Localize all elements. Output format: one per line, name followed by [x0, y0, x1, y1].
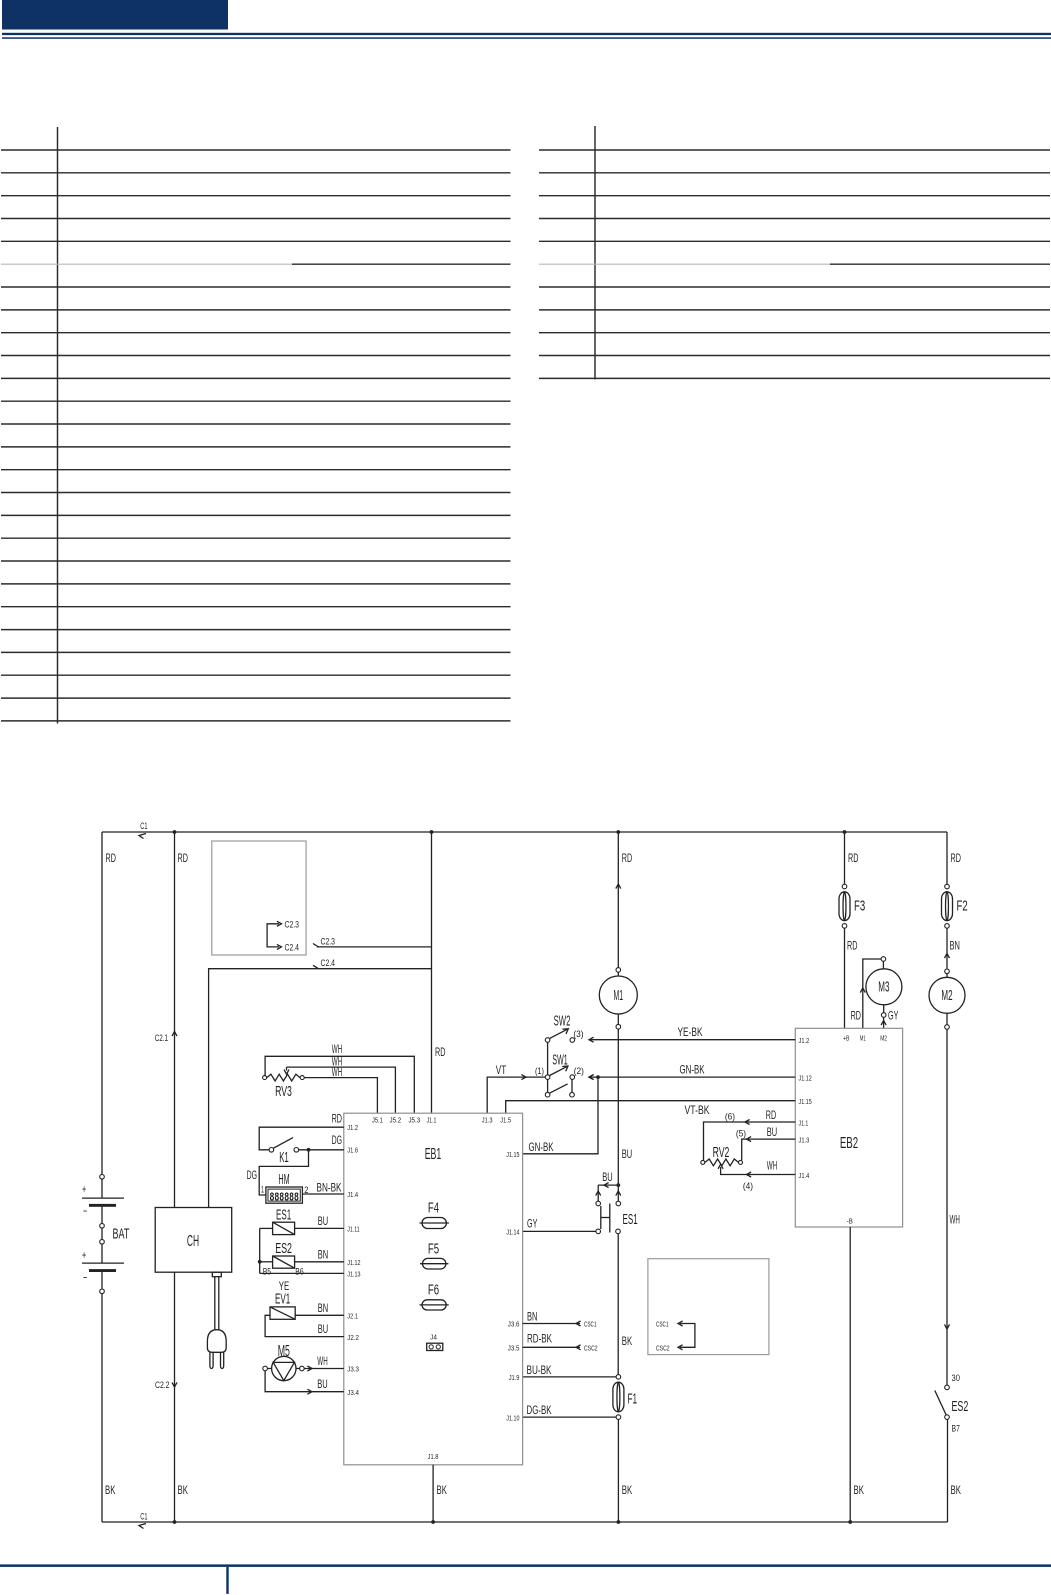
svg-text:ES2: ES2: [275, 1241, 292, 1257]
left table row line 21: [1, 606, 511, 608]
svg-text:BU: BU: [318, 1214, 328, 1228]
svg-text:M1: M1: [614, 988, 624, 1004]
svg-text:RD: RD: [178, 851, 189, 865]
wire: BN-BK HM to EB1 J1.4: [302, 1193, 343, 1195]
left table row line 18: [1, 537, 511, 539]
svg-text:J1.8: J1.8: [428, 1452, 439, 1461]
wire: RD riser to EB1 J1.1: [430, 830, 434, 834]
left table row line 10: [1, 355, 511, 357]
wire: F1 to bottom rail BK: [617, 1419, 619, 1522]
svg-text:CSC1: CSC1: [584, 1320, 597, 1329]
svg-text:J1.9: J1.9: [509, 1373, 520, 1382]
wire: VT EB1 J1.3 to SW1 (1): [487, 1077, 545, 1113]
svg-text:J1.1: J1.1: [427, 1116, 437, 1125]
svg-text:M1: M1: [860, 1034, 866, 1043]
wire: EB2 M1 pin to motor M3: [863, 959, 881, 1028]
svg-text:GY: GY: [527, 1217, 537, 1231]
svg-text:WH: WH: [767, 1159, 777, 1173]
wire: DG K1 junction to HM: [259, 1150, 308, 1195]
left table column divider: [57, 127, 59, 724]
node C2.3 inside: [267, 924, 279, 947]
svg-text:EB1: EB1: [425, 1146, 442, 1163]
right table row line 11: [539, 377, 1050, 379]
svg-text:CSC1: CSC1: [656, 1320, 669, 1329]
svg-text:BK: BK: [105, 1483, 115, 1497]
right table row line 7: [539, 286, 1050, 288]
svg-text:F6: F6: [428, 1283, 439, 1299]
right table row line 9: [539, 332, 1050, 334]
svg-text:BU: BU: [317, 1377, 327, 1391]
SW1 lower contacts: [547, 1079, 549, 1092]
svg-text:C2.2: C2.2: [155, 1380, 170, 1390]
svg-text:BK: BK: [951, 1483, 961, 1497]
svg-text:J3.6: J3.6: [508, 1320, 520, 1329]
svg-text:J5.1: J5.1: [372, 1116, 383, 1125]
svg-text:J1.2: J1.2: [799, 1036, 810, 1045]
svg-text:(4): (4): [743, 1181, 753, 1191]
potentiometer RV2: [701, 1160, 705, 1164]
svg-text:GN-BK: GN-BK: [680, 1063, 705, 1077]
right table row line 1: [539, 149, 1050, 151]
svg-text:J5.2: J5.2: [390, 1116, 402, 1125]
svg-text:BN-BK: BN-BK: [317, 1181, 342, 1195]
controller EB2: [795, 1028, 902, 1227]
left table row line 24: [1, 674, 511, 676]
relay contact K1: [269, 1148, 274, 1153]
svg-text:ES2: ES2: [952, 1399, 969, 1415]
svg-text:J1.1: J1.1: [799, 1119, 809, 1128]
left table row line 5: [1, 240, 511, 242]
wire: battery to bottom rail BK: [101, 1294, 103, 1522]
left table row line 7: [1, 286, 511, 288]
wire: YE to EB1 J1.13: [260, 1272, 344, 1274]
svg-text:WH: WH: [950, 1213, 960, 1227]
left table row line 25: [1, 697, 511, 699]
svg-text:C1: C1: [140, 821, 147, 831]
connector box CSC (gray): [648, 1259, 769, 1355]
svg-text:YE-BK: YE-BK: [678, 1025, 703, 1039]
svg-text:ES1: ES1: [276, 1207, 291, 1223]
wire: GN-BK EB1 J1.15 up to SW1 junction: [523, 1077, 598, 1154]
left table row line 4: [1, 218, 511, 220]
wire: YE-BK EB2 J1.2 to SW2: [590, 1039, 795, 1041]
left table row line 14: [1, 446, 511, 448]
svg-text:M2: M2: [941, 988, 952, 1004]
wire: WH RV3 left to EB1 J5.3: [265, 1056, 414, 1113]
header double rule upper: [2, 33, 1051, 35]
svg-text:30: 30: [952, 1373, 960, 1383]
wire: rail corner to fuse F2: [946, 832, 948, 884]
svg-text:1: 1: [261, 1185, 264, 1195]
svg-text:RV2: RV2: [713, 1145, 730, 1161]
connector box C2 (gray): [212, 841, 306, 955]
left table row line 16: [1, 492, 511, 494]
motor M3: [881, 957, 886, 962]
left table row line 3: [1, 195, 511, 197]
wire: EB1 J1.8 to bottom rail BK: [432, 1465, 434, 1522]
svg-text:J1.5: J1.5: [500, 1116, 511, 1125]
svg-text:M2: M2: [880, 1034, 887, 1043]
motor M1: [616, 968, 621, 973]
svg-text:888888: 888888: [270, 1190, 299, 1204]
svg-text:HM: HM: [278, 1172, 289, 1188]
svg-text:SW2: SW2: [554, 1014, 571, 1030]
svg-text:F4: F4: [428, 1201, 439, 1217]
svg-text:C2.3: C2.3: [285, 919, 300, 929]
svg-text:F3: F3: [854, 899, 865, 915]
svg-text:BAT: BAT: [113, 1227, 130, 1243]
wire: F2 to motor M2: [946, 928, 948, 969]
svg-text:CSC2: CSC2: [584, 1343, 598, 1352]
svg-text:J1.6: J1.6: [347, 1146, 358, 1155]
svg-text:RV3: RV3: [275, 1084, 292, 1100]
svg-text:RD: RD: [106, 851, 117, 865]
svg-text:EB2: EB2: [840, 1135, 858, 1152]
footer divider: [226, 1567, 228, 1594]
svg-text:WH: WH: [332, 1065, 342, 1079]
svg-text:F2: F2: [957, 899, 968, 915]
svg-text:J1.3: J1.3: [799, 1136, 810, 1145]
svg-text:DG: DG: [247, 1168, 257, 1182]
svg-text:J1.15: J1.15: [506, 1150, 519, 1159]
svg-text:RD: RD: [851, 1009, 862, 1023]
svg-text:K1: K1: [279, 1150, 289, 1166]
left table row line 26: [1, 720, 511, 722]
svg-text:J1.15: J1.15: [799, 1097, 812, 1106]
left table faint row line: [1, 263, 292, 265]
svg-text:J1.2: J1.2: [347, 1123, 358, 1132]
wire: ES1 left leg: [260, 1227, 273, 1229]
wire: RD EB1 J1.2 to K1: [259, 1127, 344, 1150]
left table row line 15: [1, 469, 511, 471]
svg-text:BK: BK: [437, 1483, 447, 1497]
svg-text:J3.5: J3.5: [508, 1344, 520, 1353]
wire: BU EV1 to EB1 J2.2: [265, 1315, 344, 1336]
svg-text:BU: BU: [318, 1322, 328, 1336]
svg-text:J5.3: J5.3: [408, 1116, 420, 1125]
right table row line 2: [539, 172, 1050, 174]
svg-text:(1): (1): [535, 1066, 544, 1076]
svg-text:BK: BK: [622, 1483, 632, 1497]
left table row line 9: [1, 332, 511, 334]
svg-text:-B: -B: [847, 1217, 853, 1226]
svg-text:EV1: EV1: [275, 1291, 290, 1307]
svg-text:RD: RD: [435, 1045, 446, 1059]
left table row line 19: [1, 560, 511, 562]
wire: RD EB2 J1.1 to RV2 (6): [704, 1122, 796, 1160]
wire: BN EB1 J3.6 to CSC1: [523, 1323, 580, 1325]
svg-text:BK: BK: [622, 1334, 632, 1348]
wire: EB2 -B to bottom rail BK: [849, 1227, 851, 1522]
svg-text:J4: J4: [430, 1333, 437, 1342]
svg-text:RD: RD: [847, 939, 858, 953]
wire: WH RV3 wiper to EB1 J5.2: [287, 1067, 396, 1113]
svg-text:WH: WH: [317, 1354, 327, 1368]
right table row line 8: [539, 309, 1050, 311]
left table row line 12: [1, 400, 511, 402]
svg-text:+B: +B: [843, 1034, 849, 1043]
wire: top +RD rail: [102, 831, 947, 833]
svg-text:+: +: [82, 1248, 86, 1262]
left table row line 20: [1, 583, 511, 585]
wire: BU M5 to EB1 J3.4: [265, 1371, 344, 1392]
svg-text:J1.14: J1.14: [506, 1228, 519, 1237]
svg-text:C2.4: C2.4: [321, 958, 336, 968]
fuse F3: [842, 884, 847, 889]
svg-text:RD: RD: [622, 851, 633, 865]
potentiometer RV3: [263, 1076, 267, 1080]
wire: DG K1 to EB1 J1.6: [299, 1149, 344, 1151]
wire: SW2 to SW1: [547, 1042, 549, 1075]
svg-text:J1.4: J1.4: [347, 1190, 358, 1199]
svg-text:J1.4: J1.4: [799, 1171, 810, 1180]
wire: bottom BK rail: [102, 1521, 948, 1523]
svg-text:C2.1: C2.1: [155, 1033, 168, 1043]
header double rule lower: [2, 37, 1051, 39]
svg-text:−: −: [83, 1271, 87, 1285]
svg-text:J1.10: J1.10: [506, 1413, 519, 1422]
svg-text:BK: BK: [854, 1483, 864, 1497]
svg-text:J1.3: J1.3: [482, 1116, 493, 1125]
right table row line 5: [539, 240, 1050, 242]
svg-text:VT: VT: [496, 1063, 507, 1077]
svg-text:(5): (5): [736, 1129, 746, 1139]
fuse F1: [616, 1375, 621, 1380]
wire: WH M5 to EB1 J3.3: [304, 1368, 344, 1370]
svg-text:+: +: [82, 1182, 86, 1196]
svg-text:RD: RD: [766, 1108, 777, 1122]
motor M2: [945, 969, 950, 974]
svg-text:F1: F1: [628, 1392, 638, 1408]
right table row line 10: [539, 355, 1050, 357]
svg-text:(6): (6): [725, 1112, 735, 1122]
svg-text:RD: RD: [848, 851, 859, 865]
svg-text:J1.11: J1.11: [347, 1225, 359, 1234]
left table row line 2: [1, 172, 511, 174]
battery BAT: [100, 1175, 105, 1180]
wire: ES1 down to F1 BK: [617, 1234, 619, 1375]
svg-text:B5: B5: [263, 1266, 271, 1276]
svg-text:J2.1: J2.1: [347, 1312, 358, 1321]
left table row line 23: [1, 651, 511, 653]
wire: VT-BK EB1 J1.5 to EB2 J1.15: [506, 1101, 796, 1114]
left table row line 8: [1, 309, 511, 311]
left table row line 11: [1, 377, 511, 379]
svg-text:(3): (3): [573, 1029, 583, 1039]
svg-text:CH: CH: [187, 1233, 199, 1250]
wire: M3 to EB2 M2 pin: [883, 1017, 885, 1028]
wire: DG-BK EB1 J1.10 to F1: [523, 1416, 617, 1418]
svg-text:RD: RD: [951, 851, 962, 865]
right table row line 4: [539, 218, 1050, 220]
svg-text:VT-BK: VT-BK: [685, 1103, 710, 1117]
left table row line 13: [1, 423, 511, 425]
wire: WH EB2 J1.4 to RV2 wiper (4): [721, 1167, 796, 1175]
wire: BU EB2 J1.3 to RV2 (5): [742, 1139, 796, 1160]
wire: WH RV3 right to EB1 J5.1: [304, 1078, 377, 1114]
node C2.4 inside: [277, 944, 282, 949]
svg-text:RD-BK: RD-BK: [527, 1331, 552, 1345]
svg-text:F5: F5: [428, 1242, 439, 1258]
header navy bar: [2, 0, 228, 30]
right table column divider: [594, 126, 596, 380]
svg-text:J2.2: J2.2: [347, 1333, 359, 1342]
svg-text:BN: BN: [318, 1247, 328, 1261]
wire: C2.1 rail to CH: [173, 830, 177, 834]
switch ES1: [616, 1183, 620, 1187]
left table row line 1: [1, 149, 511, 151]
svg-text:DG: DG: [332, 1133, 342, 1147]
svg-text:BN: BN: [950, 939, 960, 953]
svg-text:B7: B7: [952, 1424, 960, 1434]
wire: left rail RD down to battery: [101, 832, 103, 1175]
wire: C2.3 to J1.1 riser: [313, 944, 318, 947]
svg-text:B6: B6: [295, 1266, 303, 1276]
svg-text:−: −: [83, 1204, 87, 1218]
wire: GY EB1 J1.14 to ES1: [523, 1230, 596, 1232]
wire: GN-BK EB2 J1.12 to SW1: [590, 1076, 795, 1078]
wire: BU ES1 to EB1 J1.11: [295, 1227, 344, 1229]
svg-text:GN-BK: GN-BK: [529, 1140, 554, 1154]
wire: C2.4 from CH riser: [313, 965, 318, 968]
svg-text:BK: BK: [178, 1483, 188, 1497]
svg-text:DG-BK: DG-BK: [527, 1403, 552, 1417]
svg-text:BU: BU: [767, 1125, 777, 1139]
svg-text:C2.4: C2.4: [285, 942, 300, 952]
left table row line 22: [1, 629, 511, 631]
svg-text:BN: BN: [318, 1301, 328, 1315]
wire: BN ES2 to EB1 J1.12: [295, 1261, 344, 1263]
right table faint row line: [539, 263, 830, 265]
wire: M1 to ES1 BU: [617, 1029, 619, 1185]
charger CH: [155, 1208, 232, 1273]
controller EB1: [344, 1113, 523, 1465]
svg-text:C2.3: C2.3: [321, 936, 336, 946]
wire: CH to bottom rail C2.2 / BK: [174, 1272, 176, 1522]
svg-text:CSC2: CSC2: [656, 1344, 670, 1353]
fuse F2: [945, 884, 950, 889]
svg-text:M3: M3: [878, 980, 889, 996]
svg-text:J1.12: J1.12: [799, 1074, 812, 1083]
svg-text:BU: BU: [622, 1147, 632, 1161]
wire: rail to motor M1: [616, 830, 620, 834]
wire: rail to fuse F3: [843, 830, 847, 834]
wire: M2 down WH: [946, 1029, 948, 1385]
svg-text:J1.12: J1.12: [347, 1258, 360, 1267]
mains plug of CH: [212, 1272, 221, 1277]
left table row line 17: [1, 514, 511, 516]
svg-text:BU-BK: BU-BK: [527, 1363, 552, 1377]
svg-text:J3.4: J3.4: [347, 1388, 359, 1397]
svg-text:RD: RD: [332, 1112, 343, 1126]
footer rule: [0, 1564, 1051, 1567]
svg-text:BN: BN: [527, 1310, 537, 1324]
svg-text:J3.3: J3.3: [347, 1365, 359, 1374]
svg-text:(2): (2): [574, 1066, 584, 1076]
svg-text:BU: BU: [602, 1170, 612, 1184]
svg-text:J1.13: J1.13: [347, 1270, 360, 1279]
wire: F3 to EB2 +B: [844, 928, 846, 1028]
wire: BU-BK EB1 J1.9 to F1: [523, 1376, 617, 1378]
right table row line 3: [539, 195, 1050, 197]
wire: BN EV1 to EB1 J2.1: [295, 1314, 344, 1316]
svg-text:ES1: ES1: [623, 1212, 638, 1228]
svg-text:GY: GY: [888, 1009, 898, 1023]
svg-text:C1: C1: [140, 1512, 147, 1522]
wire: RD-BK EB1 J3.5 to CSC2: [523, 1346, 580, 1348]
wire: ES2 to bottom rail BK: [947, 1419, 949, 1522]
